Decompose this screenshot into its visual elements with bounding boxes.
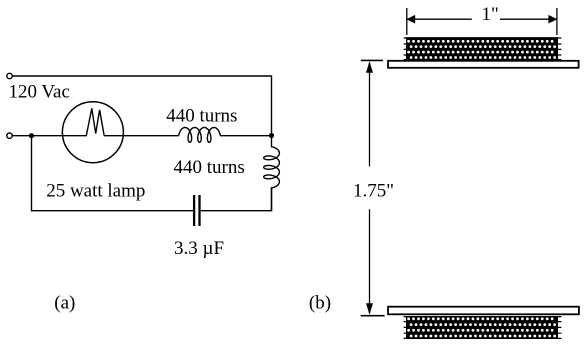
dimension line vertical upper segment (1.75") [369,63,371,167]
wire bottom rail right [200,187,272,211]
inductor L3 vertical 440 turns [264,147,280,188]
svg-text:3.3 µF: 3.3 µF [174,238,224,259]
coil winding bottom row lines [404,317,562,339]
coil winding bottom band [406,316,558,338]
wire middle rail right [220,135,271,137]
wire top rail [12,76,271,133]
plate top [388,61,579,68]
coil winding top row lines [404,38,562,60]
arrowhead left (1") [406,15,415,24]
dimension extension line right (1") [556,8,558,35]
wire left branch [32,136,195,211]
coil winding top dots [407,40,556,59]
terminal mid-left [7,133,12,138]
node junction right [269,133,274,138]
svg-text:25 watt lamp: 25 watt lamp [46,181,145,202]
terminal top-left [7,73,12,78]
arrowhead down (1.75") [366,303,373,314]
dimension line right segment (1") [500,18,557,20]
plate bottom [388,307,579,315]
lamp L1 circle [62,102,123,163]
svg-text:(b): (b) [309,293,331,314]
wire right branch lower [271,188,273,212]
arrowhead right (1") [548,15,557,24]
capacitor C1 plate left [193,195,195,226]
coil winding top band [406,37,558,60]
inductor L2 horizontal 440 turns [179,128,221,143]
dimension line vertical lower segment (1.75") [369,209,371,313]
dimension tick bottom (1.75") [361,315,385,317]
svg-text:440 turns: 440 turns [174,157,245,178]
wire middle rail center [104,135,179,137]
svg-text:1.75": 1.75" [353,180,394,201]
dimension tick top (1.75") [361,59,383,61]
arrowhead up (1.75") [366,61,373,72]
wire right branch upper [271,136,273,148]
capacitor C1 plate right [198,195,200,226]
coil winding bottom dots [407,317,556,337]
svg-text:(a): (a) [54,293,75,314]
node junction left [29,133,34,138]
lamp filament M [86,108,104,135]
svg-text:440 turns: 440 turns [166,106,237,127]
dimension extension line left (1") [406,8,408,35]
wire middle rail left [12,135,86,137]
dimension line left segment (1") [406,18,472,20]
svg-text:1": 1" [482,4,499,25]
svg-text:120 Vac: 120 Vac [9,82,70,103]
